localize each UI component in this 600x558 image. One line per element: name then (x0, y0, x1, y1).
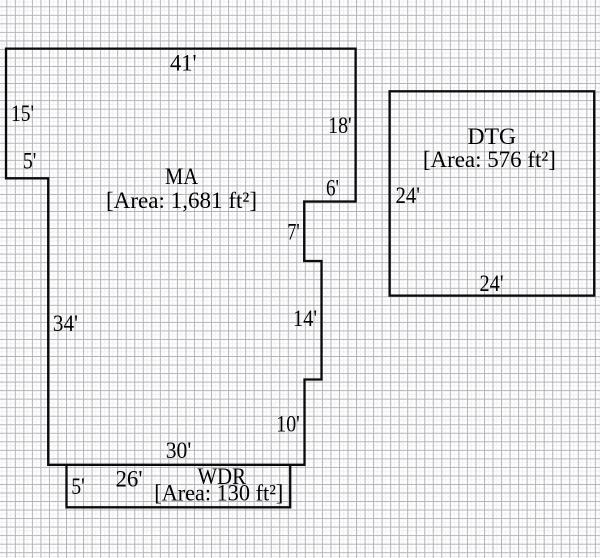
svg-text:26': 26' (116, 467, 143, 492)
svg-text:[Area: 576 ft²]: [Area: 576 ft²] (423, 147, 556, 172)
svg-text:MA: MA (165, 164, 198, 189)
DTG outline (390, 91, 595, 295)
svg-text:7': 7' (287, 219, 300, 244)
svg-text:[Area: 130 ft²]: [Area: 130 ft²] (154, 481, 283, 506)
svg-text:14': 14' (293, 306, 317, 331)
svg-text:DTG: DTG (468, 124, 517, 149)
WDR outline (67, 465, 291, 508)
svg-text:[Area: 1,681 ft²]: [Area: 1,681 ft²] (106, 188, 257, 213)
svg-text:5': 5' (71, 474, 85, 499)
svg-text:10': 10' (276, 412, 300, 437)
svg-text:34': 34' (53, 311, 78, 336)
svg-text:24': 24' (396, 183, 421, 208)
svg-text:6': 6' (326, 175, 339, 200)
MA outline (6, 49, 356, 465)
svg-text:15': 15' (11, 101, 34, 126)
svg-text:18': 18' (328, 113, 352, 138)
svg-text:41': 41' (170, 51, 197, 76)
svg-text:5': 5' (23, 149, 37, 174)
svg-text:30': 30' (166, 438, 192, 463)
svg-text:24': 24' (480, 271, 504, 296)
